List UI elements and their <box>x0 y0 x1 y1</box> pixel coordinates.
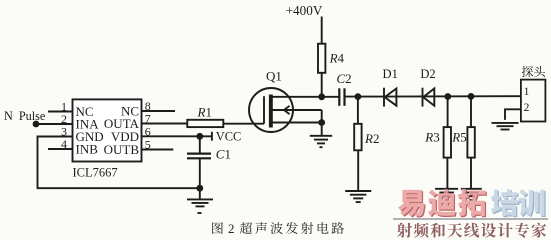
svg-text:N Pulse: N Pulse <box>4 109 45 123</box>
svg-text:2: 2 <box>524 102 530 114</box>
svg-text:D2: D2 <box>420 67 435 81</box>
svg-text:OUTB: OUTB <box>104 142 140 157</box>
svg-text:+400V: +400V <box>286 3 323 18</box>
svg-text:ICL7667: ICL7667 <box>73 166 118 180</box>
svg-text:Q1: Q1 <box>266 68 282 83</box>
svg-text:6: 6 <box>145 124 151 138</box>
svg-text:D1: D1 <box>383 67 398 81</box>
svg-text:INB: INB <box>76 142 99 157</box>
svg-text:5: 5 <box>145 138 151 152</box>
svg-text:C2: C2 <box>337 71 352 86</box>
svg-text:R4: R4 <box>329 50 345 65</box>
svg-text:R1: R1 <box>197 104 212 119</box>
svg-text:2: 2 <box>228 221 235 236</box>
svg-text:VCC: VCC <box>216 130 241 144</box>
svg-text:1: 1 <box>524 86 530 98</box>
svg-text:R5: R5 <box>451 129 466 144</box>
svg-text:4: 4 <box>61 137 67 151</box>
svg-text:R3: R3 <box>424 129 439 144</box>
svg-text:C1: C1 <box>216 147 231 162</box>
svg-text:R2: R2 <box>364 131 379 146</box>
